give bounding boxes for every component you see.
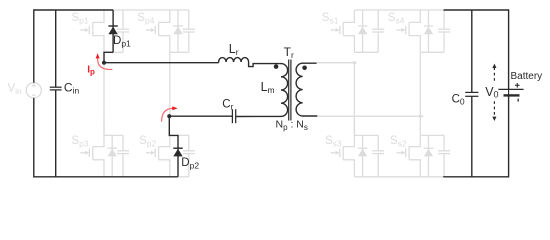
left bus wire (input) (33, 9, 35, 82)
inductor L_r (219, 58, 280, 67)
secondary top rail (gray segment) (354, 9, 443, 11)
wire - secondary bottom mid wire (gray segment to node B') (317, 115, 423, 117)
svg-text:Sp1: Sp1 (71, 12, 88, 26)
capacitor C_O (465, 91, 478, 93)
diode D_p2 branch (black highlighted path) (169, 116, 178, 177)
body diode of Ss2 (428, 135, 430, 176)
voltage source V_in (grayed circle with +/-) (26, 83, 41, 98)
body diode of Sp3 (111, 135, 113, 176)
transformer T_r - secondary winding (296, 63, 317, 116)
wire - S_p4 stub down to node B (crosses top mid wire) (169, 52, 171, 116)
svg-text:Sp2: Sp2 (139, 135, 156, 149)
secondary bottom rail (black segment) (443, 176, 508, 178)
polarity dot primary (274, 64, 279, 69)
snubber capacitor of Sp4 (188, 10, 190, 29)
diode D_p2 (173, 147, 182, 149)
battery symbol (498, 88, 523, 90)
svg-text:Ss3: Ss3 (325, 135, 342, 149)
transformer core (288, 60, 290, 121)
svg-text:Ip: Ip (87, 64, 95, 76)
top rail (black segment, primary) (34, 9, 113, 11)
wire - S_p3 stub from node A down (103, 63, 105, 136)
body diode of Sp4 (177, 10, 179, 52)
current arrow at node B (red) (162, 108, 174, 121)
node A (102, 61, 106, 65)
body diode of Ss4 (428, 10, 430, 52)
svg-text:C0: C0 (452, 94, 465, 107)
svg-text:Sp4: Sp4 (137, 12, 154, 26)
svg-text:Vin: Vin (8, 82, 23, 96)
svg-text:Cr: Cr (222, 98, 233, 111)
snubber capacitor of Sp3 (122, 135, 124, 150)
svg-text:Lm: Lm (261, 80, 275, 95)
capacitor C_in (50, 86, 62, 88)
battery + mark (516, 83, 518, 88)
svg-text:Ss2: Ss2 (390, 135, 407, 149)
svg-text:Dp2: Dp2 (181, 157, 199, 170)
node B (167, 114, 171, 118)
right bus wire / output capacitor C_O branch (471, 10, 473, 92)
svg-text:Ss1: Ss1 (322, 12, 339, 26)
primary bottom rail (gray segment) (178, 176, 189, 178)
wire - S_s4 stub down to node B' (419, 52, 421, 116)
secondary bottom rail (gray segment) (354, 176, 443, 178)
snubber capacitor of Sp2 (188, 135, 190, 150)
svg-text:Np : Ns: Np : Ns (276, 119, 308, 132)
body diode of Ss3 (362, 135, 364, 176)
wire - D_p1 low bar jog to node A (104, 52, 113, 62)
svg-text:Cin: Cin (64, 80, 80, 95)
svg-text:Battery: Battery (511, 71, 543, 82)
svg-text:Tr: Tr (284, 45, 294, 60)
output voltage V_O dashed arrow (493, 67, 495, 82)
current arrow I_p at node A (red) (98, 58, 113, 70)
diode D_p1 (108, 25, 117, 27)
capacitor C_in branch wire (55, 10, 57, 87)
circuit schematic: resonant DC-DC converter with battery output (0, 0, 550, 187)
wire - S_s3 stub from node A' down (crosses bottom mid wire) (353, 63, 355, 136)
primary top rail (gray segment) (113, 9, 189, 11)
snubber capacitor of Ss2 (443, 135, 445, 150)
wire - top mid wire from node A to L_r (104, 62, 219, 64)
transformer T_r - primary winding (L_m) (236, 64, 287, 117)
node A' (secondary winding top junction) (353, 61, 356, 64)
svg-text:Lr: Lr (229, 42, 239, 57)
body diode of Ss1 (362, 10, 364, 52)
svg-text:V0: V0 (485, 85, 498, 100)
snubber capacitor of Ss1 (377, 10, 379, 29)
capacitor C_r in bottom mid wire (169, 115, 232, 117)
battery branch wire (508, 9, 510, 89)
svg-text:Ss4: Ss4 (388, 12, 405, 26)
snubber capacitor of Sp1 (122, 10, 124, 29)
secondary top rail (black segment) (444, 9, 509, 11)
wire - secondary top mid wire (gray segment to node A') (317, 62, 357, 64)
snubber capacitor of Ss3 (377, 135, 379, 150)
snubber capacitor of Ss4 (443, 10, 445, 29)
diode D_p1 branch (black highlighted path) (112, 10, 114, 52)
battery - lead tick (517, 99, 519, 102)
bottom rail (black segment, primary) (34, 176, 178, 178)
svg-text:Dp1: Dp1 (113, 35, 131, 48)
polarity dot secondary (302, 66, 307, 71)
node B' (secondary winding bottom junction) (419, 115, 422, 118)
svg-text:Sp3: Sp3 (71, 135, 88, 149)
wire - bottom mid wire from C_r to transformer (235, 116, 238, 118)
